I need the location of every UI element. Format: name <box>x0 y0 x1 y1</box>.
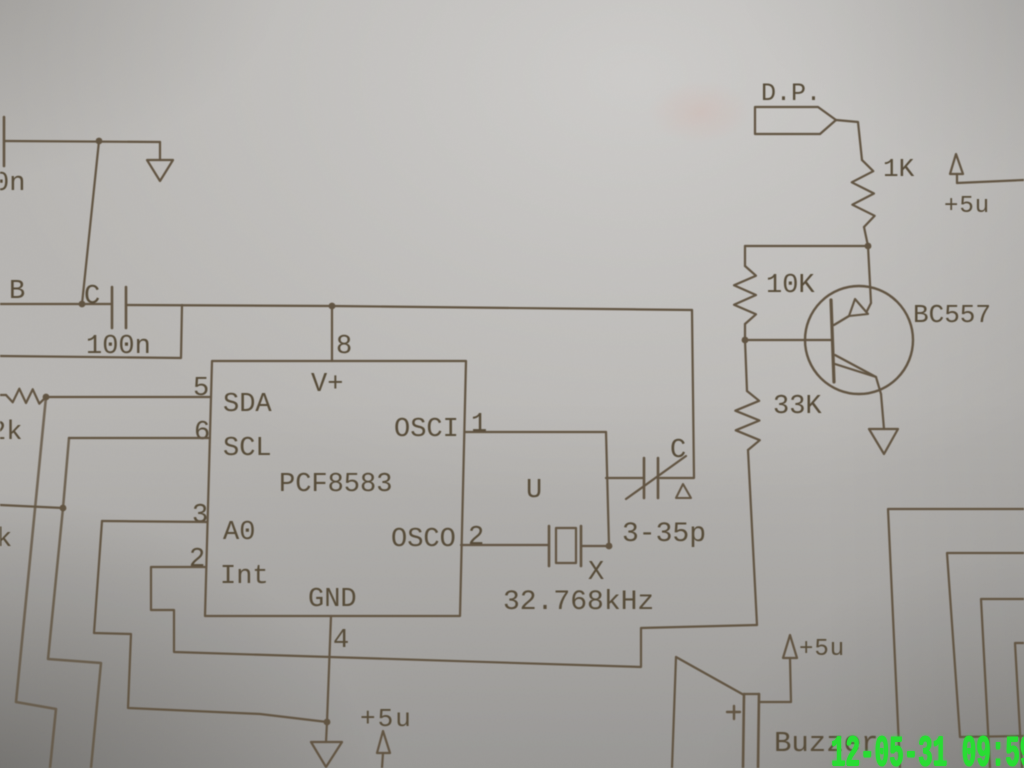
svg-text:B: B <box>9 277 25 307</box>
wire top-left horizontal <box>5 141 160 142</box>
value label 32.768kHz <box>503 587 654 618</box>
wire emitter vertical <box>868 246 871 303</box>
label +5v bottom <box>360 704 413 734</box>
pin number 4 <box>333 626 349 656</box>
wire buzzer to +5v <box>760 658 791 702</box>
svg-text:A0: A0 <box>223 518 255 548</box>
resistor R 33K <box>735 340 760 625</box>
pin number 5 <box>193 374 209 404</box>
wire SDA drop staircase <box>16 397 56 768</box>
pin number 2 right <box>468 523 484 553</box>
ground symbol bottom <box>311 742 342 767</box>
node junction SDA <box>43 394 50 401</box>
node junction crystal-OSCI <box>606 543 613 550</box>
wire pin 4 <box>327 616 331 722</box>
svg-text:2: 2 <box>468 523 484 553</box>
label 10K <box>766 271 815 301</box>
svg-text:2k: 2k <box>0 418 22 448</box>
node junction base divider <box>742 337 749 344</box>
label C for capacitor <box>84 282 100 312</box>
wire net B left segment <box>0 303 111 305</box>
svg-text:+5u: +5u <box>360 704 413 734</box>
supply arrow +5v top right <box>950 154 1024 183</box>
buzzer plus polarity <box>727 706 740 719</box>
svg-text:BC557: BC557 <box>913 300 991 330</box>
pin label OSCO <box>391 525 456 555</box>
svg-text:OSCO: OSCO <box>391 525 456 555</box>
pin label OSCI <box>394 415 459 445</box>
svg-text:X: X <box>588 558 604 588</box>
label 0n for edge capacitor <box>0 169 25 199</box>
label +5v buzzer <box>799 636 845 663</box>
svg-text:C: C <box>84 282 100 312</box>
node junction pin 8 <box>329 303 336 310</box>
svg-text:8: 8 <box>336 332 352 362</box>
label +5v top right <box>944 193 990 220</box>
supply arrow +5v bottom <box>377 731 390 768</box>
label 33K <box>773 392 822 422</box>
node junction at B-net and top vertical <box>79 301 86 308</box>
svg-text:2: 2 <box>189 545 205 575</box>
pin label Int <box>220 562 269 592</box>
label GND pin 4 <box>308 585 357 615</box>
ground symbol transistor <box>869 429 898 454</box>
display module box outline 3 <box>981 599 1024 768</box>
wire OSCO pin 2 <box>461 544 549 546</box>
wire emitter junction horizontal <box>745 245 868 247</box>
ground symbol top-left <box>147 142 173 181</box>
transistor Q1 BC557 <box>805 286 913 394</box>
svg-text:10K: 10K <box>766 271 815 301</box>
label 1K <box>883 154 915 184</box>
label V+ pin 8 <box>311 370 343 400</box>
wire trimmer left connection <box>606 477 643 479</box>
node B label <box>9 277 25 307</box>
svg-text:OSCI: OSCI <box>394 415 459 445</box>
wire to ground symbol <box>326 722 327 742</box>
display module box outline 4 <box>1015 643 1024 768</box>
net label tag D.P. <box>755 107 836 134</box>
svg-text:+5u: +5u <box>944 193 990 220</box>
wire SCL drop staircase <box>48 438 101 768</box>
wire A0 pin 3 <box>102 521 207 522</box>
svg-text:32.768kHz: 32.768kHz <box>503 587 654 618</box>
svg-text:33K: 33K <box>773 392 822 422</box>
pin label A0 <box>223 518 255 548</box>
svg-text:1K: 1K <box>883 154 915 184</box>
svg-text:D.P.: D.P. <box>761 79 821 108</box>
buzzer BZ1 speaker symbol <box>672 657 759 768</box>
crystal X1 32.768kHz <box>549 526 609 566</box>
IC U1 PCF8583 body outline <box>205 361 466 616</box>
wire SDA pin 5 <box>46 396 211 398</box>
wire SCL pin 6 <box>69 437 210 439</box>
resistor R 10K <box>734 246 756 340</box>
svg-text:GND: GND <box>308 585 357 615</box>
svg-text:SDA: SDA <box>223 390 272 420</box>
display module box outline 2 <box>947 553 1024 737</box>
wire Int pin 2 staircase to 33K <box>151 567 757 667</box>
svg-text:U: U <box>526 476 542 506</box>
capacitor (partial, 100n) at left edge <box>3 117 6 166</box>
wire step below 100n <box>0 305 182 358</box>
supply arrow +5v buzzer <box>783 635 797 658</box>
resistor R 2k on SDA <box>0 389 46 404</box>
svg-text:PCF8583: PCF8583 <box>279 470 392 500</box>
pin number 1 <box>471 410 487 440</box>
label Buzzer <box>774 727 878 760</box>
pin number 6 <box>194 418 210 448</box>
svg-text:3-35p: 3-35p <box>622 519 706 550</box>
node junction SCL <box>60 505 67 512</box>
pin label SCL <box>223 434 272 464</box>
svg-text:5: 5 <box>193 374 209 404</box>
node junction 1K emitter 10K <box>865 243 872 250</box>
wire A0 staircase to ground node <box>94 521 327 722</box>
capacitor C 100n plates <box>112 287 126 328</box>
wire V+ right corner down to trimmer <box>660 310 694 478</box>
svg-text:+5u: +5u <box>799 636 845 663</box>
wire vertical from top wire to B net <box>82 141 99 304</box>
camera timestamp <box>831 729 1024 768</box>
label PCF8583 <box>279 470 392 500</box>
trimmer capacitor C 3-35p <box>626 456 691 499</box>
svg-text:3: 3 <box>192 501 208 531</box>
label U oscillator <box>526 476 542 506</box>
wire V+ net: cap C to right corner <box>127 305 692 310</box>
svg-text:6: 6 <box>194 418 210 448</box>
pin label SDA <box>223 390 272 420</box>
label 2k <box>0 418 22 448</box>
svg-text:Int: Int <box>220 562 269 592</box>
wire collector to ground <box>881 394 884 429</box>
display module box outline 1 <box>888 509 1024 768</box>
wire base <box>745 339 831 341</box>
resistor R 1K <box>852 160 875 246</box>
svg-text:C: C <box>670 436 686 466</box>
wire from left edge to SCL <box>0 505 63 508</box>
node junction pin 4 ground <box>324 719 331 726</box>
label X crystal <box>588 558 604 588</box>
wire pin 8 stub <box>331 306 333 361</box>
label BC557 <box>913 300 991 330</box>
label D.P. <box>761 79 821 108</box>
wire OSCI vertical <box>606 432 609 546</box>
svg-text:SCL: SCL <box>223 434 272 464</box>
value label 100n <box>86 332 151 362</box>
pin number 2 left <box>189 545 205 575</box>
label k second resistor <box>0 525 12 555</box>
pin number 3 <box>192 501 208 531</box>
svg-text:k: k <box>0 525 12 555</box>
wire OSCI pin 1 <box>465 431 606 433</box>
node junction top wire <box>96 138 103 145</box>
svg-text:V+: V+ <box>311 370 343 400</box>
value label 3-35p <box>622 519 706 550</box>
svg-text:1: 1 <box>471 410 487 440</box>
label C trimmer <box>670 436 686 466</box>
wire from D.P. tag <box>836 120 862 160</box>
pin number 8 <box>336 332 352 362</box>
svg-text:4: 4 <box>333 626 349 656</box>
svg-text:0n: 0n <box>0 169 25 199</box>
